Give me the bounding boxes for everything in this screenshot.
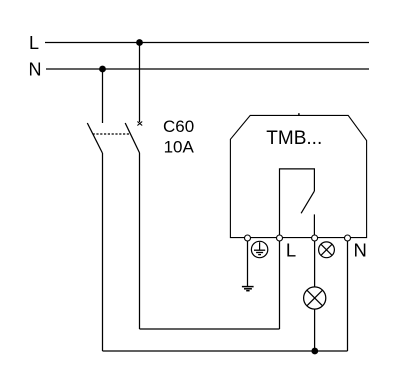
svg-text:L: L — [286, 240, 296, 261]
wire lamp branch from device terminal down — [314, 238, 316, 351]
junction dot on L rail — [136, 39, 143, 46]
svg-text:L: L — [29, 33, 39, 53]
wire PE terminal down to ground — [247, 241, 249, 287]
wire from L junction down to breaker pole 2 — [139, 43, 141, 123]
svg-text:N: N — [29, 59, 42, 79]
PE terminal symbol (earth in circle) — [251, 241, 267, 257]
terminal lamp — [312, 235, 318, 241]
terminal N — [345, 235, 351, 241]
wire up to terminal L of device — [279, 238, 281, 329]
breaker Q1 pole 1 blade — [87, 123, 102, 153]
wire from N junction down to breaker pole 1 — [102, 69, 104, 123]
junction dot bottom — [311, 348, 318, 355]
svg-text:C60: C60 — [163, 117, 194, 136]
svg-text:N: N — [354, 240, 367, 261]
internal switch feed (left vertical + top + right vertical) — [280, 169, 315, 238]
terminal PE — [245, 235, 251, 241]
wire pole 2 down run — [139, 153, 141, 329]
lamp E1 (circle with X) — [304, 287, 326, 309]
internal switch blade — [301, 191, 314, 213]
breaker Q1 contact cross mark — [137, 122, 142, 126]
wire N rail — [46, 68, 369, 70]
terminal L — [277, 235, 283, 241]
wire up to terminal N of device — [347, 238, 349, 351]
device U1 TMB enclosure — [230, 115, 366, 237]
internal switch lower contact wire — [313, 214, 315, 237]
junction dot on N rail — [99, 66, 106, 73]
breaker Q1 pole 2 blade — [125, 123, 139, 153]
lamp terminal symbol (small circle with X) — [319, 242, 335, 258]
breaker Q1 linkage (dashed) — [93, 133, 131, 135]
wire L rail — [45, 42, 369, 44]
ground symbol — [242, 287, 254, 291]
device top center tick — [298, 113, 300, 115]
wire middle horizontal run — [140, 328, 280, 330]
svg-text:TMB...: TMB... — [266, 128, 322, 149]
wire bottom horizontal run — [103, 350, 348, 352]
svg-text:10A: 10A — [164, 137, 195, 156]
wire pole 1 down run — [102, 153, 104, 351]
